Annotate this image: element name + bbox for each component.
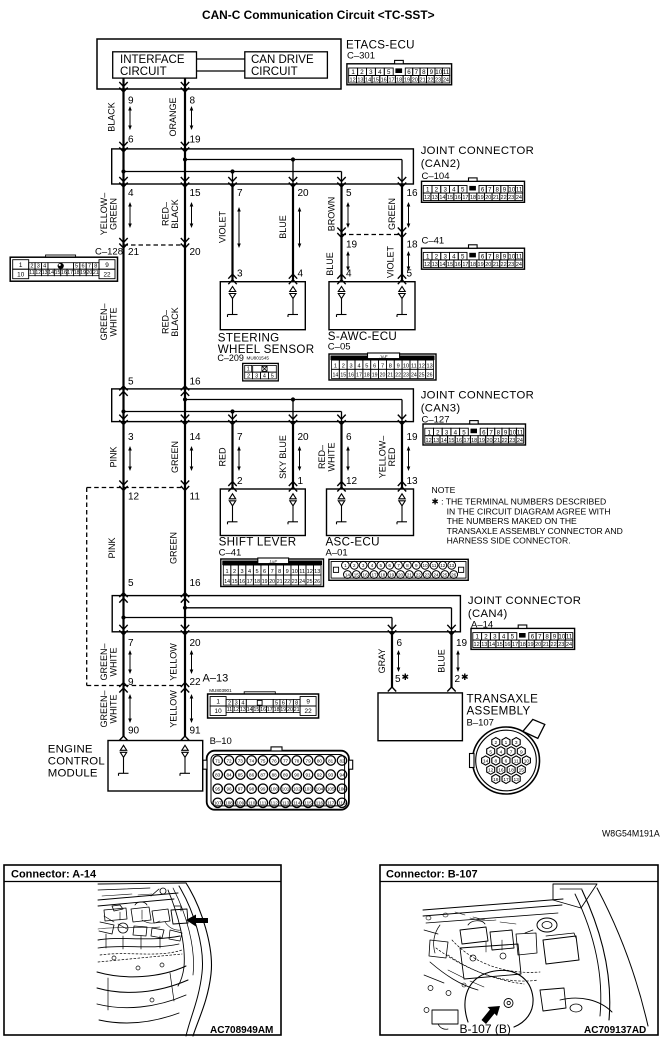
svg-text:12: 12: [128, 492, 140, 503]
svg-text:26: 26: [314, 579, 320, 585]
svg-text:13: 13: [481, 642, 487, 648]
svg-text:8: 8: [94, 264, 97, 270]
svg-text:Connector: B-107: Connector: B-107: [386, 869, 478, 881]
svg-text:23: 23: [508, 195, 514, 201]
svg-text:RED–: RED–: [317, 445, 327, 469]
svg-text:4: 4: [298, 269, 304, 280]
CAN drive circuit box: [245, 52, 328, 78]
svg-text:WHITE: WHITE: [109, 308, 119, 337]
svg-text:81: 81: [328, 758, 334, 763]
svg-text:5: 5: [128, 578, 134, 589]
svg-text:5: 5: [407, 269, 413, 280]
CAN4 internal bus line 1: [185, 607, 452, 609]
svg-text:25: 25: [307, 579, 313, 585]
svg-text:21: 21: [294, 707, 300, 713]
svg-text:ENGINE: ENGINE: [48, 744, 93, 756]
terminal pin 1: [290, 494, 296, 499]
svg-text:GRAY: GRAY: [377, 649, 387, 674]
svg-text:C–41: C–41: [219, 548, 242, 559]
svg-text:15: 15: [340, 373, 346, 379]
svg-text:76: 76: [272, 758, 278, 763]
svg-text:2: 2: [247, 373, 250, 379]
svg-text:114: 114: [293, 801, 301, 806]
svg-text:22: 22: [284, 579, 290, 585]
svg-text:Connector: A-14: Connector: A-14: [11, 869, 97, 881]
terminal pin 91: [182, 745, 188, 750]
svg-text:W8G54M191A: W8G54M191A: [602, 829, 660, 839]
svg-text:21: 21: [128, 247, 140, 258]
svg-text:14: 14: [441, 438, 447, 444]
svg-text:11: 11: [411, 363, 417, 369]
svg-text:YELLOW: YELLOW: [169, 643, 179, 681]
svg-text:7: 7: [128, 638, 134, 649]
svg-text:VIOLET: VIOLET: [386, 245, 396, 278]
svg-text:14: 14: [224, 579, 230, 585]
svg-text:7: 7: [397, 563, 400, 568]
svg-text:12: 12: [346, 476, 358, 487]
svg-text:9: 9: [128, 677, 134, 688]
svg-text:14: 14: [333, 373, 339, 379]
svg-text:8: 8: [494, 759, 497, 765]
svg-text:22: 22: [551, 642, 557, 648]
svg-text:BLACK: BLACK: [170, 307, 180, 337]
svg-text:24: 24: [516, 195, 522, 201]
wire SKY BLUE CAN3 pin 20: [292, 422, 294, 489]
svg-text:13: 13: [42, 270, 48, 276]
CAN3 internal bus line 2: [124, 411, 342, 413]
svg-text:18: 18: [470, 262, 476, 268]
svg-text:20: 20: [486, 438, 492, 444]
svg-text:78: 78: [294, 758, 300, 763]
wire YELLOW pin22 to ECM pin91: [184, 686, 186, 737]
svg-text:15: 15: [55, 270, 61, 276]
svg-text:C–209: C–209: [217, 353, 244, 363]
svg-text:GREEN: GREEN: [387, 198, 397, 230]
svg-text:13: 13: [407, 476, 419, 487]
svg-text:10: 10: [403, 363, 409, 369]
svg-text:19: 19: [262, 579, 268, 585]
svg-text:19: 19: [389, 572, 395, 577]
svg-text:7: 7: [489, 429, 493, 436]
svg-text:2: 2: [228, 700, 231, 706]
svg-text:22: 22: [427, 78, 433, 84]
svg-text:12: 12: [307, 569, 313, 575]
wire PINK CAN3 pin 3: [122, 422, 124, 488]
svg-text:13: 13: [314, 569, 320, 575]
svg-text:14: 14: [345, 572, 351, 577]
wire YELLOW&#8211;-GREEN CAN2 pin 4: [122, 184, 124, 245]
svg-text:7: 7: [381, 363, 384, 369]
svg-text:18: 18: [508, 768, 514, 774]
svg-text:MODULE: MODULE: [48, 768, 98, 780]
svg-text:7: 7: [237, 432, 243, 443]
svg-text:10: 10: [292, 569, 298, 575]
wires between interface and CAN drive circuit: [197, 58, 245, 60]
svg-text:16: 16: [190, 377, 202, 388]
svg-text:8: 8: [406, 563, 409, 568]
svg-text:2: 2: [455, 674, 461, 685]
svg-text:20: 20: [190, 638, 202, 649]
svg-text:3: 3: [515, 740, 518, 746]
svg-text:71: 71: [215, 758, 221, 763]
svg-text:16: 16: [498, 768, 504, 774]
svg-text:26: 26: [451, 572, 457, 577]
svg-text:19: 19: [80, 270, 86, 276]
svg-text:93: 93: [328, 772, 334, 777]
svg-text:18: 18: [274, 707, 280, 713]
svg-text:ASSEMBLY: ASSEMBLY: [467, 705, 531, 718]
svg-text:8: 8: [190, 96, 196, 107]
svg-text:15: 15: [190, 188, 202, 199]
svg-text:25: 25: [442, 572, 448, 577]
svg-text:108: 108: [225, 801, 233, 806]
wire GREEN-WHITE CAN4 pin7 to pin9: [122, 632, 124, 686]
svg-text:AC708949AM: AC708949AM: [210, 1025, 273, 1036]
connector C-128: [10, 257, 117, 281]
svg-text:14: 14: [365, 78, 371, 84]
svg-text:11: 11: [443, 69, 450, 76]
svg-text:115: 115: [304, 801, 312, 806]
svg-text:1: 1: [226, 569, 229, 575]
svg-text:24: 24: [299, 579, 305, 585]
svg-text:95: 95: [215, 787, 221, 792]
svg-text:TRANSAXLE ASSEMBLY CONNECTOR A: TRANSAXLE ASSEMBLY CONNECTOR AND: [447, 526, 623, 536]
svg-text:4: 4: [241, 700, 244, 706]
svg-text:7: 7: [415, 69, 419, 76]
dashed junction C-128 between pins 21 and 20: [124, 244, 186, 246]
svg-text:6: 6: [346, 432, 352, 443]
S-AWC-ECU box: [329, 282, 415, 330]
svg-text:88: 88: [272, 772, 278, 777]
svg-text:6: 6: [388, 563, 391, 568]
svg-text:90: 90: [294, 772, 300, 777]
svg-text:BROWN: BROWN: [327, 197, 337, 232]
svg-text:BLUE: BLUE: [325, 252, 335, 276]
svg-text:7: 7: [288, 700, 291, 706]
svg-text:15: 15: [447, 262, 453, 268]
svg-text:SKY BLUE: SKY BLUE: [278, 435, 288, 479]
svg-text:(CAN4): (CAN4): [468, 608, 508, 620]
svg-text:105: 105: [327, 787, 335, 792]
svg-text:16: 16: [456, 438, 462, 444]
svg-text:1: 1: [351, 69, 355, 76]
wire ORANGE pin8 to CAN2 pin19: [184, 78, 186, 149]
svg-text:MU801545: MU801545: [247, 355, 270, 360]
svg-text:17: 17: [503, 777, 509, 783]
svg-text:GREEN: GREEN: [169, 532, 179, 564]
svg-text:17: 17: [267, 707, 273, 713]
svg-text:16: 16: [190, 578, 202, 589]
wire BROWN CAN2 pin 5: [340, 184, 342, 235]
svg-text:(CAN2): (CAN2): [421, 158, 461, 170]
svg-text:2: 2: [30, 264, 33, 270]
svg-text:8: 8: [422, 69, 426, 76]
svg-text:85: 85: [238, 772, 244, 777]
svg-text:19: 19: [190, 135, 202, 146]
wire GREEN CAN3 pin 14: [184, 422, 186, 488]
svg-text:B–10: B–10: [210, 736, 232, 747]
svg-text:WHITE: WHITE: [327, 443, 337, 472]
transaxle assembly box: [378, 693, 462, 741]
svg-text:10: 10: [509, 429, 516, 436]
svg-text:19: 19: [456, 638, 468, 649]
svg-text:6: 6: [128, 135, 134, 146]
svg-text:RED–: RED–: [161, 202, 171, 226]
svg-text:5: 5: [387, 69, 391, 76]
terminal pin 90: [120, 745, 126, 750]
svg-text:25: 25: [419, 373, 425, 379]
svg-text:2: 2: [360, 69, 364, 76]
svg-text:AC709137AD: AC709137AD: [584, 1025, 646, 1036]
svg-text:15: 15: [354, 572, 360, 577]
svg-text:22: 22: [501, 262, 507, 268]
svg-text:19: 19: [478, 195, 484, 201]
svg-text:23: 23: [292, 579, 298, 585]
svg-text:5: 5: [256, 569, 259, 575]
svg-text:20: 20: [298, 188, 310, 199]
svg-text:17: 17: [247, 579, 253, 585]
svg-text:GREEN: GREEN: [170, 441, 180, 473]
svg-text:97: 97: [238, 787, 244, 792]
svg-text:3: 3: [369, 69, 373, 76]
svg-text:10: 10: [17, 271, 25, 278]
svg-text:7: 7: [88, 264, 91, 270]
svg-text:12: 12: [35, 270, 41, 276]
svg-text:21: 21: [277, 579, 283, 585]
wire YELLOW&#8211;-RED CAN3 pin 19: [401, 422, 403, 489]
svg-text:21: 21: [493, 195, 499, 201]
svg-text:4: 4: [371, 563, 374, 568]
svg-text:B–107: B–107: [467, 718, 494, 729]
connector A-13: [208, 694, 319, 718]
svg-text:12: 12: [424, 262, 430, 268]
svg-text:2: 2: [494, 740, 497, 746]
svg-text:4: 4: [263, 373, 266, 379]
svg-text:13: 13: [240, 707, 246, 713]
svg-text:22: 22: [501, 195, 507, 201]
svg-text:12: 12: [426, 438, 432, 444]
svg-text:22: 22: [305, 708, 313, 715]
svg-text:10: 10: [524, 759, 530, 765]
svg-text:14: 14: [489, 642, 495, 648]
svg-text:16: 16: [407, 188, 419, 199]
svg-text:19: 19: [479, 438, 485, 444]
svg-text:20: 20: [287, 707, 293, 713]
svg-text:5: 5: [128, 377, 134, 388]
svg-text:2: 2: [237, 476, 243, 487]
svg-text:106: 106: [338, 787, 346, 792]
svg-text:JOINT CONNECTOR: JOINT CONNECTOR: [468, 595, 581, 607]
svg-text:86: 86: [249, 772, 255, 777]
svg-text:14: 14: [247, 707, 253, 713]
svg-text:✱: ✱: [461, 672, 469, 682]
svg-text:5: 5: [365, 363, 368, 369]
CAN4 internal bus line 2: [124, 617, 393, 619]
svg-text:24: 24: [516, 262, 522, 268]
svg-text:5: 5: [275, 700, 278, 706]
svg-text:CIRCUIT: CIRCUIT: [251, 66, 298, 78]
joint connector (CAN2) box C-104: [112, 149, 414, 184]
terminal pin 13: [399, 494, 405, 499]
svg-text:3: 3: [235, 700, 238, 706]
svg-text:CAN DRIVE: CAN DRIVE: [251, 54, 314, 66]
svg-text:15: 15: [373, 78, 379, 84]
svg-text:1: 1: [505, 740, 508, 746]
svg-text:16: 16: [239, 579, 245, 585]
wire BLACK pin9 to CAN2 pin6: [122, 78, 124, 149]
svg-text:11: 11: [432, 563, 437, 568]
svg-text:13: 13: [433, 438, 439, 444]
svg-text:CAN-C Communication Circuit <T: CAN-C Communication Circuit <TC-SST>: [202, 8, 435, 22]
svg-text:✱: ✱: [402, 672, 410, 682]
svg-text:4: 4: [248, 569, 251, 575]
svg-text:WHITE: WHITE: [109, 695, 119, 724]
wire GREEN-WHITE pin21 to CAN3 pin5: [122, 245, 124, 389]
wire RED&#8211;-BLACK CAN2 pin 15: [184, 184, 186, 245]
connector C-127: [423, 424, 526, 445]
svg-text:12: 12: [488, 768, 494, 774]
svg-text:18: 18: [520, 642, 526, 648]
wire YELLOW CAN4 pin20 to pin22: [184, 632, 186, 686]
wire GREEN CAN2 pin 16: [401, 184, 403, 235]
svg-text:101: 101: [282, 787, 290, 792]
svg-text:18: 18: [380, 572, 386, 577]
wire GREEN-WHITE pin9 to ECM pin90: [122, 686, 124, 737]
svg-text:THE NUMBERS MAKED ON THE: THE NUMBERS MAKED ON THE: [447, 516, 577, 526]
svg-text:13: 13: [449, 563, 455, 568]
svg-text:3: 3: [241, 569, 244, 575]
interface circuit box: [113, 52, 197, 78]
svg-text:22: 22: [103, 271, 111, 278]
CAN2 internal pin stubs: [122, 149, 124, 184]
svg-text:17: 17: [371, 572, 377, 577]
svg-text:21: 21: [387, 373, 393, 379]
svg-text:4: 4: [500, 749, 503, 755]
svg-text:1: 1: [19, 262, 23, 269]
svg-text:14: 14: [439, 262, 445, 268]
svg-text:GREEN–: GREEN–: [99, 690, 109, 727]
svg-text:21: 21: [494, 438, 500, 444]
svg-text:23: 23: [508, 262, 514, 268]
wire BLUE CAN4 pin19 to transaxle pin2: [450, 632, 452, 688]
svg-text:103: 103: [304, 787, 312, 792]
svg-text:16: 16: [363, 572, 369, 577]
svg-text:GREEN–: GREEN–: [99, 303, 109, 340]
svg-text:12: 12: [233, 707, 239, 713]
wire RED&#8211;-WHITE CAN3 pin 6: [340, 422, 342, 489]
svg-text:ORANGE: ORANGE: [168, 97, 178, 136]
svg-text:87: 87: [260, 772, 266, 777]
svg-text:80: 80: [317, 758, 323, 763]
svg-text:16: 16: [61, 270, 67, 276]
svg-text:24: 24: [443, 78, 449, 84]
svg-text:94: 94: [339, 772, 345, 777]
svg-text:BLACK: BLACK: [170, 199, 180, 229]
svg-text:19: 19: [404, 78, 410, 84]
terminal pin 3: [229, 287, 235, 292]
svg-text:90: 90: [128, 726, 140, 737]
svg-text:10: 10: [435, 69, 442, 76]
svg-text:24: 24: [517, 438, 523, 444]
svg-text:24: 24: [566, 642, 572, 648]
svg-text:16: 16: [455, 195, 461, 201]
photo box Connector A-14: [4, 865, 281, 1035]
car front illustration A-14: [97, 883, 211, 1036]
svg-text:20: 20: [412, 78, 418, 84]
svg-text:4: 4: [346, 269, 352, 280]
svg-text:PINK: PINK: [109, 446, 119, 467]
svg-text:9: 9: [397, 363, 400, 369]
svg-text:84: 84: [226, 772, 232, 777]
wire VIOLET to S-AWC pin 5: [401, 235, 403, 282]
terminal pin 5: [399, 287, 405, 292]
svg-text:19: 19: [527, 642, 533, 648]
svg-text:22: 22: [190, 677, 202, 688]
svg-text:WHITE: WHITE: [109, 648, 119, 677]
svg-text:21: 21: [543, 642, 549, 648]
svg-text:116: 116: [316, 801, 324, 806]
svg-text:8: 8: [278, 569, 281, 575]
svg-text:17: 17: [462, 262, 468, 268]
svg-text:3: 3: [128, 432, 134, 443]
svg-text:3: 3: [255, 373, 258, 379]
svg-text:17: 17: [67, 270, 73, 276]
svg-text:5: 5: [380, 563, 383, 568]
svg-text:91: 91: [190, 726, 202, 737]
svg-text:4: 4: [128, 188, 134, 199]
joint connector (CAN3) box C-127: [112, 389, 414, 422]
svg-text:21: 21: [93, 270, 99, 276]
svg-text:GREEN: GREEN: [109, 198, 119, 230]
svg-text:4: 4: [357, 363, 360, 369]
svg-text:6: 6: [482, 429, 486, 436]
svg-text:92: 92: [317, 772, 323, 777]
svg-text:13: 13: [432, 195, 438, 201]
svg-text:16: 16: [260, 707, 266, 713]
svg-text:CIRCUIT: CIRCUIT: [120, 66, 167, 78]
CAN3 internal bus line 1: [185, 399, 402, 401]
svg-text:INTERFACE: INTERFACE: [120, 54, 185, 66]
svg-text:20: 20: [380, 373, 386, 379]
svg-text:110: 110: [248, 801, 256, 806]
connector C-05: [329, 354, 436, 380]
svg-text:IN THE CIRCUIT DIAGRAM AGREE W: IN THE CIRCUIT DIAGRAM AGREE WITH: [447, 506, 611, 516]
svg-text:7: 7: [271, 569, 274, 575]
svg-text:6: 6: [263, 569, 266, 575]
svg-text:111: 111: [259, 801, 266, 806]
svg-text:YELLOW–: YELLOW–: [378, 436, 388, 479]
svg-text:MU803901: MU803901: [209, 688, 232, 693]
svg-text:21: 21: [420, 78, 426, 84]
svg-text:20: 20: [269, 579, 275, 585]
svg-text:VIOLET: VIOLET: [218, 210, 228, 243]
svg-text:18: 18: [396, 78, 402, 84]
svg-text:12: 12: [474, 642, 480, 648]
connector B-10: [207, 751, 349, 810]
terminal pin 2: [229, 494, 235, 499]
svg-text:2: 2: [233, 569, 236, 575]
svg-text:75: 75: [260, 758, 266, 763]
connector B-107 round: [523, 719, 545, 738]
svg-text:11: 11: [29, 270, 34, 276]
svg-text:22: 22: [395, 373, 401, 379]
svg-text:17: 17: [462, 195, 468, 201]
svg-text:5: 5: [462, 429, 466, 436]
svg-text:9: 9: [430, 69, 434, 76]
svg-text:113: 113: [282, 801, 290, 806]
svg-text:JAE: JAE: [379, 354, 387, 359]
svg-text:23: 23: [403, 373, 409, 379]
